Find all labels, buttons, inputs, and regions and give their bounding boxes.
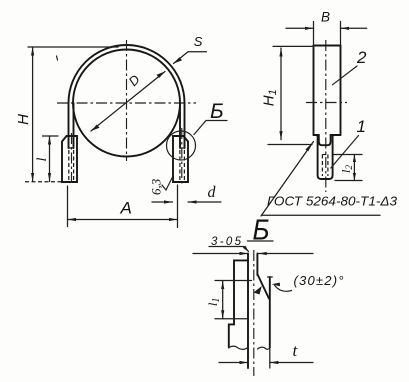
leader to label B (194, 121, 227, 135)
H bottom dashed extension (25, 181, 65, 183)
H top extension line (28, 46, 118, 48)
left foot (62, 136, 77, 182)
gap right edge (256, 254, 258, 276)
leader S (174, 52, 207, 64)
arrow H top (31, 47, 34, 56)
gap dim right line (258, 253, 313, 255)
centerline vertical (126, 40, 128, 161)
arrow D lower (91, 125, 100, 132)
strip right edge (340, 46, 342, 136)
strip edge line (section) (247, 254, 249, 369)
dimension H1 line (280, 48, 282, 140)
l1 bottom extension (215, 318, 248, 320)
far strip top tick (268, 276, 273, 278)
l2 top extension (334, 154, 362, 156)
arrow A left (68, 218, 77, 221)
lug hidden hole lines (322, 155, 328, 177)
svg-text:2: 2 (356, 48, 367, 67)
arrow l1 bottom (221, 310, 224, 319)
weld arrow half (306, 142, 314, 152)
roughness mark 6,3 (162, 177, 173, 190)
B dim right line (341, 27, 367, 29)
weld tick left leg (69, 147, 74, 149)
arrow H1 bottom (279, 131, 282, 140)
dimension D line (91, 72, 165, 132)
centerline horizontal (57, 102, 196, 104)
arrow t right (270, 361, 279, 364)
arrow A right (169, 218, 178, 221)
arrow 3-05 (243, 246, 249, 253)
strip top edge (314, 45, 341, 47)
arrow D upper (157, 72, 166, 79)
svg-text:В: В (321, 9, 330, 24)
weld tick right leg (180, 147, 185, 149)
arrow H1 top (279, 48, 282, 57)
B ext right (340, 22, 342, 46)
dimension A line (68, 219, 178, 221)
svg-text:(30±2)°: (30±2)° (294, 273, 344, 288)
arrow H bottom (31, 173, 34, 182)
weld leader line (261, 142, 314, 217)
notch U (319, 135, 331, 145)
view title underline (247, 240, 273, 242)
arrow gap left (240, 252, 249, 255)
svg-text:Б: Б (210, 100, 224, 123)
pipe inner circle (73, 50, 180, 157)
label 3-05 underline leader (209, 247, 249, 252)
bevel diagonal (258, 275, 269, 299)
arrow angle (272, 283, 281, 287)
strip centerline (325, 40, 327, 192)
svg-text:H: H (15, 114, 32, 125)
svg-text:ГОСТ 5264-80-Т1-Δ3: ГОСТ 5264-80-Т1-Δ3 (267, 194, 398, 209)
B ext left (313, 22, 315, 46)
t dim left line (219, 362, 248, 364)
arrow S (174, 57, 183, 63)
dimension H line (32, 47, 34, 182)
right foot (173, 136, 188, 182)
H1 bottom extension (268, 144, 312, 146)
t ext right (269, 348, 271, 368)
weld shelf (263, 214, 381, 216)
arrow B right (341, 27, 350, 30)
arrow d left (164, 200, 173, 203)
arrow l2 top (353, 155, 356, 163)
svg-text:A: A (120, 199, 132, 218)
speck artifact (57, 56, 58, 60)
svg-text:1: 1 (357, 117, 366, 136)
svg-text:l: l (35, 158, 50, 162)
svg-text:d: d (208, 184, 217, 201)
arrow t left (240, 361, 249, 364)
weld fillet blob (254, 286, 262, 295)
detail centerline (253, 250, 255, 376)
lug side view (318, 135, 333, 179)
H1 top extension (273, 45, 312, 47)
dimension l2 line (353, 155, 355, 181)
dimension l line (49, 136, 51, 182)
leader 1 (331, 136, 359, 169)
far strip wavy break (258, 347, 270, 349)
lug wavy break (229, 346, 248, 349)
axis tick left (306, 102, 347, 104)
t dim right line (270, 362, 313, 364)
l2 bottom extension (335, 180, 362, 182)
arrow l top (48, 136, 51, 145)
strip left edge (313, 46, 315, 136)
A right extension (177, 185, 179, 228)
right foot centerline (181, 128, 183, 186)
l1 top extension (215, 280, 252, 282)
wire left leg band lines (69, 103, 74, 148)
band outer arc (69, 45, 185, 103)
left foot hidden lines (69, 150, 74, 180)
l top extension (43, 135, 59, 137)
svg-text:S: S (194, 34, 203, 49)
arrow l2 bottom (353, 173, 356, 181)
arrow l bottom (48, 173, 51, 182)
strip bottom edges (314, 134, 341, 136)
A left extension (67, 186, 69, 227)
dimension l1 line (222, 281, 224, 319)
right foot hidden lines (180, 150, 185, 180)
lug section outline (229, 260, 248, 347)
angle leader curve (275, 285, 292, 291)
detail circle B (167, 131, 196, 160)
arrow B left (305, 27, 314, 30)
gap dim left line (193, 253, 248, 255)
svg-text:6,3: 6,3 (149, 178, 164, 195)
far strip edge (269, 277, 271, 348)
arrow gap right (258, 252, 267, 255)
left foot centerline (71, 133, 73, 186)
dimension d right line (188, 201, 221, 203)
leader 2 (332, 66, 357, 85)
B dim left line (286, 27, 314, 29)
wire right leg band lines (180, 103, 185, 148)
dimension d left line (152, 201, 173, 203)
arrow l1 top (221, 281, 224, 290)
arrow d right (188, 200, 197, 203)
